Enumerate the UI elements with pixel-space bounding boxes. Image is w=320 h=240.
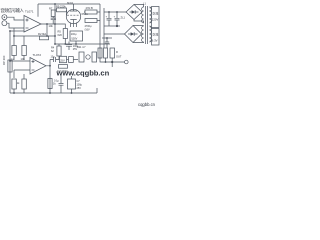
svg-text:25V: 25V [60,58,65,62]
junction A1 [13,35,15,37]
junction aux [9,30,11,32]
junction B2 [54,35,56,37]
wire cap return [104,25,120,27]
AC source box 6.3V [152,29,160,46]
svg-text:6.3V: 6.3V [152,39,158,43]
wire U2 - input [14,70,30,78]
wire reg stubs [106,58,113,67]
wire ZL2 to T1 winding [133,26,144,43]
wire rail x55 [54,4,56,44]
wire jack to op-amp + input [7,17,24,20]
capacitor C4 coupling [50,56,60,62]
junction A2 [46,35,48,37]
svg-text:10k: 10k [49,24,54,28]
resistor R12 out [110,48,122,59]
wire aux input lower [10,30,24,32]
regulator box U4 [98,48,108,58]
capacitor C1 [11,36,17,61]
resistor R13 [12,79,20,93]
svg-text:10k: 10k [21,57,26,61]
svg-text:www.cqgbb.cn: www.cqgbb.cn [56,68,110,77]
wire left rail [9,31,11,93]
resistor R5 620 [55,24,67,44]
svg-text:RP 360: RP 360 [2,55,6,65]
resistor R14 [22,74,26,93]
svg-text:220V: 220V [152,18,159,22]
svg-text:TL071: TL071 [25,10,34,14]
wire U2 output [46,60,50,94]
wire DC bus to bridge ZL1 [104,11,126,13]
wire feedback from top rail [37,4,39,17]
junction B3 [54,43,56,45]
junction lower bus [106,37,108,39]
svg-text:10μ: 10μ [51,56,56,59]
wire ground rail bottom [10,92,97,94]
wire U1 output [41,24,55,36]
capacitor C6 0.1u [54,74,64,93]
resistor R2 9k1 [38,32,49,40]
resistor R9 220k [55,4,67,15]
wire ZL2 feed [104,33,125,35]
svg-text:R5: R5 [58,30,62,34]
op-amp U1 [24,16,41,33]
junction gnd2 [49,92,51,94]
svg-text:25V: 25V [77,87,82,90]
svg-text:TL072: TL072 [33,53,42,57]
transformer T1 [142,6,152,44]
potentiometer RP 360 [2,55,12,72]
svg-text:1k: 1k [53,83,56,86]
bridge rectifier ZL2 [125,26,142,43]
wire jack2 to op-amp minus [7,23,24,28]
wire power rail x100 [99,4,101,58]
junction U2 out [49,65,51,67]
svg-text:620: 620 [58,33,63,37]
junction out1 [105,61,107,63]
svg-text:/100V: /100V [71,38,78,41]
svg-text:OUT: OUT [116,55,122,59]
wire power rail x104 [103,8,105,48]
svg-text:47Ω B: 47Ω B [86,6,94,10]
svg-text:R: R [116,50,118,54]
capacitor C9 [114,12,120,26]
svg-text:ZL1: ZL1 [121,16,126,20]
junction left rail [9,60,11,62]
wire output bus [100,58,125,62]
svg-text:R2 9k1: R2 9k1 [38,32,47,36]
diode D1 [69,57,79,63]
capacitor C8 [106,12,112,26]
capacitor C3 100uF [70,31,83,44]
wire T1 to AC box [150,8,152,41]
junction bus2 [116,11,118,13]
wire op-amp minus input [13,28,15,36]
regulator box U3 [77,46,97,62]
capacitor C11 [66,42,79,52]
resistor R10 47 ohm [84,6,100,14]
junction out2 [111,61,113,63]
junction B5 [75,43,77,45]
svg-text:6N11: 6N11 [67,1,74,5]
svg-text:1k: 1k [17,82,20,85]
resistor R7 [49,6,55,16]
svg-text:0.1μ: 0.1μ [54,79,59,82]
resistor R4 [51,44,61,60]
svg-text:/16V: /16V [85,28,90,31]
wire top rail [38,3,100,5]
junction bus1 [108,11,110,13]
svg-text:62: 62 [51,50,54,53]
capacitor C7 100uF 25V [68,76,83,93]
junction output node [46,23,48,25]
output terminal OUT [125,60,129,64]
op-amp U2 [30,58,46,75]
ground stub [96,88,98,93]
svg-text:cqgbb.cn: cqgbb.cn [138,102,156,107]
wire ZL1 to T1 winding [134,5,144,24]
bridge rectifier ZL1 [121,5,143,20]
wire lower bus [102,37,112,39]
svg-text:交流: 交流 [152,32,158,37]
capacitor C2 [51,17,56,25]
wire mid rail B [55,43,110,45]
resistor R8 1M [57,65,68,73]
svg-text:交流: 交流 [152,11,158,16]
junction top rail [54,3,56,5]
wire mid rail A [14,35,55,37]
capacitor C10 [105,38,109,48]
junction C9 node [116,25,118,27]
relay box K1 [60,56,69,62]
junction B1 [54,23,56,25]
junction B4 [64,43,66,45]
svg-text:100μ: 100μ [71,33,77,36]
wire U2 + input [10,60,30,62]
vacuum tube V1 6N11 [66,4,88,27]
junction gnd3 [71,92,73,94]
AC source box 220V [152,7,160,28]
svg-text:R11 4.7: R11 4.7 [77,46,86,49]
resistor R3 10k [21,36,27,61]
capacitor C5 4700u [85,19,101,32]
resistor R15 1k [48,79,56,89]
junction gnd1 [13,92,15,94]
input jack J1 [2,15,7,26]
svg-text:音频信号输入: 音频信号输入 [0,7,24,14]
